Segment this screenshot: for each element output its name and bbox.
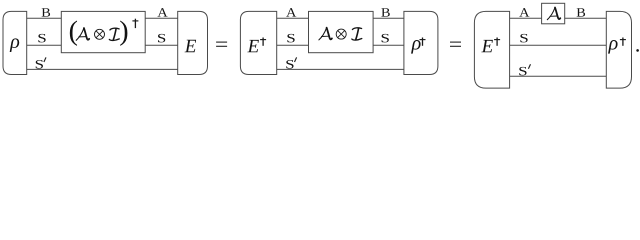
label S wire (diagram 3) <box>520 34 527 43</box>
label B wire (diagram 3) <box>577 8 585 16</box>
label rho (diagram 1) <box>10 38 20 52</box>
wire S left (diagram 1) <box>27 44 62 46</box>
equals sign 2 <box>450 42 461 46</box>
label rho-dagger (diagram 3) <box>608 40 618 54</box>
label E-dagger (diagram 2) <box>247 40 259 52</box>
label S wire left (diagram 1) <box>38 34 45 43</box>
wire S (diagram 3) <box>510 44 607 46</box>
wire S' (diagram 1) <box>27 68 178 70</box>
wire S' (diagram 2) <box>277 68 404 70</box>
label A wire (diagram 2) <box>286 8 296 16</box>
effect E (diagram 1) <box>178 11 208 74</box>
label E-dagger (diagram 3) <box>481 40 493 52</box>
period at end of equation <box>636 49 639 52</box>
label S' wire (diagram 1) <box>36 60 43 69</box>
wire S right (diagram 1) <box>145 44 178 46</box>
wire A (diagram 1) <box>145 17 178 19</box>
wire B (diagram 1) <box>27 17 62 19</box>
label S wire right (diagram 2) <box>382 34 389 43</box>
label A in small box U3 : script A <box>547 8 560 20</box>
label S wire right (diagram 1) <box>158 34 165 43</box>
dagger superscript U1 <box>132 19 138 28</box>
label (A otimes I)^dagger in U1 : left paren <box>70 20 77 45</box>
wire S' (diagram 3) <box>510 75 607 77</box>
wire S right (diagram 2) <box>373 44 404 46</box>
otimes symbol U1 <box>95 29 105 39</box>
label S wire left (diagram 2) <box>287 34 294 43</box>
right paren <box>120 20 127 45</box>
script A in U1 <box>76 28 89 40</box>
otimes symbol U2 <box>336 29 346 39</box>
wire A (diagram 2) <box>277 17 309 19</box>
label S' wire (diagram 2) <box>286 60 293 69</box>
script I in U2 <box>352 28 362 40</box>
label S' wire (diagram 3) <box>519 67 526 76</box>
label A otimes I in U2 : script A <box>319 28 332 40</box>
label B wire (diagram 1) <box>42 8 50 16</box>
wire S left (diagram 2) <box>277 44 309 46</box>
label E (diagram 1) <box>185 40 197 52</box>
label A wire (diagram 1) <box>157 8 167 16</box>
wire B (diagram 2) <box>373 17 404 19</box>
equals sign 1 <box>216 42 227 46</box>
box A otimes I U2 <box>309 11 374 52</box>
effect rho-dagger (diagram 3) <box>606 11 631 88</box>
state E-dagger (diagram 2) <box>240 11 276 74</box>
wire B (diagram 3) <box>565 17 607 19</box>
box (A otimes I)^dagger U1 <box>61 11 145 52</box>
box A small U3 <box>542 3 565 24</box>
state E-dagger (diagram 3) <box>474 11 509 88</box>
label B wire (diagram 2) <box>381 8 389 16</box>
label A wire (diagram 3) <box>519 8 529 16</box>
state rho (diagram 1) <box>3 11 27 74</box>
wire A (diagram 3) <box>510 17 542 19</box>
script I in U1 <box>109 28 119 40</box>
label rho-dagger (diagram 2) <box>411 40 421 54</box>
effect rho-dagger (diagram 2) <box>404 11 438 74</box>
